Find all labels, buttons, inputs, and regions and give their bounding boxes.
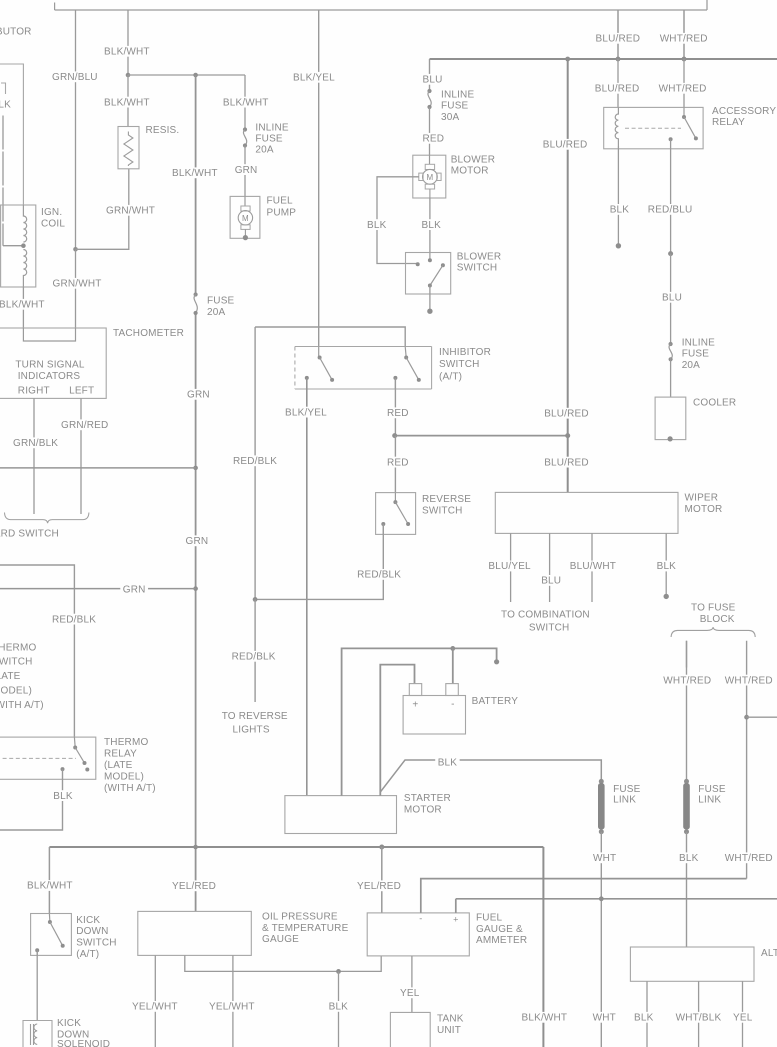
svg-text:FUSE: FUSE xyxy=(698,784,726,795)
label GRN/BLU xyxy=(50,71,101,83)
svg-text:WHT/BLK: WHT/BLK xyxy=(676,1013,722,1024)
node junction WHT bus xyxy=(599,896,604,901)
wire kick down outlet xyxy=(36,950,38,955)
label GRN/BLK xyxy=(11,437,61,449)
svg-text:BLK: BLK xyxy=(634,1013,654,1024)
svg-text:FUEL: FUEL xyxy=(476,913,503,924)
label BLK thermo xyxy=(51,790,75,802)
wire blower switch inlet xyxy=(429,253,431,261)
svg-text:WHT/RED: WHT/RED xyxy=(660,34,708,45)
inhibitor switch box xyxy=(295,347,432,390)
node RED/BLU junction dot xyxy=(668,251,673,256)
svg-text:YEL: YEL xyxy=(733,1013,753,1024)
svg-text:COIL: COIL xyxy=(41,219,65,230)
label BLK bottom xyxy=(326,1001,350,1013)
label WHT fuse xyxy=(591,852,619,864)
svg-text:WHT: WHT xyxy=(593,853,616,864)
fuse FUSE 20A symbol xyxy=(194,292,198,315)
svg-text:+: + xyxy=(412,700,418,711)
wire BLK wiper xyxy=(665,533,667,596)
label THERMO RELAY block xyxy=(104,737,156,794)
node junction bottom bus xyxy=(193,845,198,850)
blower motor symbol xyxy=(419,164,441,198)
label YEL alt xyxy=(731,1012,755,1024)
node BLK relay end dot xyxy=(616,243,621,248)
label RED lower xyxy=(385,457,412,469)
svg-text:GRN/WHT: GRN/WHT xyxy=(106,206,155,217)
svg-text:(LATE: (LATE xyxy=(104,760,133,771)
svg-text:FUEL: FUEL xyxy=(267,196,294,207)
node junction GRN/WHT xyxy=(73,247,78,252)
svg-text:WHT: WHT xyxy=(593,1013,616,1024)
inhibitor left contact xyxy=(318,356,322,360)
wire blower switch out xyxy=(429,286,431,312)
svg-text:RESIS.: RESIS. xyxy=(146,125,180,136)
label KICK DOWN SOLENOID xyxy=(57,1018,110,1047)
svg-text:BLU/RED: BLU/RED xyxy=(596,34,641,45)
wire BLK/WHT right feeder xyxy=(542,847,544,1047)
svg-text:KICK: KICK xyxy=(57,1018,81,1029)
label BLU/RED feeder upper xyxy=(540,139,590,151)
label INLINE FUSE 20A xyxy=(255,123,288,156)
svg-text:GRN: GRN xyxy=(123,584,146,595)
wire YEL/WHT oil 2 xyxy=(232,955,234,1047)
wire GRN/WHT to resistor xyxy=(76,169,129,250)
svg-text:DOWN: DOWN xyxy=(76,926,108,937)
label BLU/RED wiper 1 xyxy=(542,408,592,420)
wire WHT/BLK alt out xyxy=(698,981,700,1047)
svg-text:INLINE: INLINE xyxy=(441,90,474,101)
wire bus y59 xyxy=(430,58,777,60)
svg-text:BLU/WHT: BLU/WHT xyxy=(570,561,616,572)
fuse link 2 top dot xyxy=(684,779,689,784)
label YEL/WHT 2 xyxy=(207,1001,258,1013)
blower motor BLOWER MOTOR box xyxy=(413,155,446,198)
svg-text:SWITCH: SWITCH xyxy=(529,623,570,634)
label BLK/YEL inhibitor xyxy=(283,407,330,419)
wire GRN bus lower xyxy=(0,588,196,590)
wire GRN bus upper xyxy=(0,467,196,469)
svg-text:BLK/WHT: BLK/WHT xyxy=(27,881,73,892)
wire BLK/WHT kick down xyxy=(48,847,50,914)
wire junction bus y75 xyxy=(128,74,245,76)
wire BLK/WHT drop A xyxy=(127,10,129,75)
svg-text:SWITCH: SWITCH xyxy=(439,359,480,370)
wire bottom bus y847 xyxy=(49,846,543,848)
label YEL/WHT 1 xyxy=(130,1001,181,1013)
node junction BLK bottom xyxy=(336,969,341,974)
svg-text:SWITCH: SWITCH xyxy=(457,263,498,274)
fuel gauge FUEL GAUGE box xyxy=(367,913,469,956)
svg-text:RED: RED xyxy=(387,408,409,419)
label BLK/WHT C xyxy=(220,97,271,109)
battery minus tab xyxy=(446,684,459,696)
wire thermo feed xyxy=(0,565,74,737)
thermo relay contact in xyxy=(73,746,77,750)
svg-text:BLK: BLK xyxy=(679,853,699,864)
wire BLU to cooler fuse xyxy=(670,254,672,345)
svg-text:BLK: BLK xyxy=(422,220,442,231)
label BLU/WHT xyxy=(567,561,618,573)
fuse link 2 wire top xyxy=(686,641,688,782)
svg-text:(WITH A/T): (WITH A/T) xyxy=(104,783,156,794)
label FUEL PUMP xyxy=(267,196,297,219)
node junction WHT/RED off page xyxy=(744,715,749,720)
wire WHT/RED off page xyxy=(747,716,777,718)
node junction B xyxy=(193,73,198,78)
node junction WHT/RED relay xyxy=(682,57,687,62)
svg-text:TO REVERSE: TO REVERSE xyxy=(222,711,288,722)
label TO COMBINATION SWITCH xyxy=(501,609,590,633)
wire BLU/RED feeder xyxy=(567,59,569,492)
svg-text:BLK: BLK xyxy=(367,220,387,231)
svg-text:INHIBITOR: INHIBITOR xyxy=(439,347,491,358)
svg-text:RED/BLU: RED/BLU xyxy=(648,205,693,216)
svg-text:TO FUSE: TO FUSE xyxy=(691,602,736,613)
svg-text:WHT/RED: WHT/RED xyxy=(725,853,773,864)
svg-text:YEL/RED: YEL/RED xyxy=(357,881,401,892)
fuse link 2 body xyxy=(683,783,690,830)
fuse link 1 bottom dot xyxy=(599,829,604,834)
thermo relay dashed link xyxy=(0,757,76,759)
wire RED/BLK to reverse lights xyxy=(254,599,256,702)
svg-text:YEL/WHT: YEL/WHT xyxy=(209,1002,255,1013)
svg-text:BLU/RED: BLU/RED xyxy=(543,140,588,151)
relay switch arm xyxy=(684,117,696,138)
label TO REVERSE LIGHTS xyxy=(222,711,288,736)
wire oil-fuel link xyxy=(185,955,381,971)
wire battery minus link xyxy=(342,648,497,795)
svg-text:BLU: BLU xyxy=(662,293,682,304)
svg-text:SOLENOID: SOLENOID xyxy=(57,1039,110,1047)
label BLK/WHT feeder xyxy=(170,167,221,179)
wire YEL/WHT oil 1 xyxy=(154,955,156,1047)
brace hazard switch xyxy=(5,513,89,524)
label YEL tank xyxy=(398,987,422,999)
inhibitor right arm xyxy=(406,358,419,380)
oil gauge OIL PRESSURE box xyxy=(138,911,252,955)
label INLINE FUSE 20A cooler xyxy=(682,338,715,372)
label BLK starter xyxy=(435,757,459,769)
alternator ALTERNATOR box xyxy=(630,947,754,981)
svg-text:(WITH A/T): (WITH A/T) xyxy=(0,700,44,711)
svg-text:TO COMBINATION: TO COMBINATION xyxy=(501,609,590,620)
label BLU/RED relay xyxy=(592,83,642,95)
svg-text:BLK/WHT: BLK/WHT xyxy=(104,47,150,58)
label WHT/RED fuse block 2 xyxy=(722,675,775,687)
label BLU/YEL xyxy=(486,561,533,573)
svg-text:THERMO: THERMO xyxy=(104,737,148,748)
wire BLK alt out xyxy=(646,981,648,1047)
label RED/BLK riser xyxy=(231,455,280,467)
thermo relay contact out xyxy=(85,768,89,772)
svg-text:DISTRIBUTOR: DISTRIBUTOR xyxy=(0,27,32,38)
wire BLK relay xyxy=(617,146,619,246)
svg-text:BLOCK: BLOCK xyxy=(700,614,735,625)
svg-text:MODEL): MODEL) xyxy=(104,771,144,782)
svg-text:AMMETER: AMMETER xyxy=(476,935,527,946)
svg-text:(A/T): (A/T) xyxy=(439,372,462,383)
wire WHT/RED fuse block drop xyxy=(686,641,688,668)
svg-text:INLINE: INLINE xyxy=(682,338,715,349)
svg-text:LIGHTS: LIGHTS xyxy=(233,725,270,736)
kick down switch contacts xyxy=(35,920,64,952)
wire GRN/BLK right indicator xyxy=(33,398,35,514)
wire inhibitor right inlet xyxy=(405,347,406,358)
fuse link 1 top dot xyxy=(599,779,604,784)
wire RED/BLK reverse out xyxy=(255,524,383,599)
svg-text:-: - xyxy=(419,914,422,924)
svg-text:+: + xyxy=(453,915,458,925)
label BLK wiper xyxy=(654,561,678,573)
kick down solenoid coil xyxy=(31,1024,38,1045)
svg-text:BATTERY: BATTERY xyxy=(472,696,519,707)
relay switch arm tip xyxy=(694,136,698,140)
svg-text:GRN/BLK: GRN/BLK xyxy=(13,438,58,449)
label RED/BLK thermo xyxy=(50,614,99,626)
label RED/BLU xyxy=(645,204,695,216)
wire inhibitor left outlet xyxy=(306,378,308,389)
wire BLK/WHT coil out xyxy=(22,287,24,328)
wire GRN to fuel pump xyxy=(244,146,246,197)
svg-text:BLOWER: BLOWER xyxy=(457,252,501,263)
label RED/BLK reverse xyxy=(355,569,404,581)
wire reverse switch inlet xyxy=(394,493,396,503)
svg-text:RED: RED xyxy=(387,457,409,468)
node ign coil junction xyxy=(21,243,26,248)
label GRN fuel pump xyxy=(232,164,260,176)
label BLU/RED wiper 2 xyxy=(542,457,592,469)
ign coil IGN. COIL box xyxy=(1,205,36,287)
battery BATTERY box xyxy=(403,696,465,735)
wire inhibitor top link xyxy=(255,327,405,347)
svg-text:GRN: GRN xyxy=(186,536,209,547)
label WHT bottom xyxy=(590,1012,618,1024)
svg-text:HAZARD SWITCH: HAZARD SWITCH xyxy=(0,529,59,540)
label FUSE 20A xyxy=(207,296,235,319)
label WHT/RED lower xyxy=(722,852,775,864)
wire inhibitor left inlet xyxy=(318,347,320,358)
wire WHT/RED right drop xyxy=(746,641,748,879)
wire bus y898 fuel plus xyxy=(456,899,777,913)
svg-text:SWITCH: SWITCH xyxy=(76,937,117,948)
node fuel pump ground dot xyxy=(243,235,248,240)
wire BLU fuse to cooler xyxy=(670,358,672,397)
wire BLK thermo out xyxy=(0,769,63,830)
inhibitor right contact xyxy=(404,356,408,360)
relay coil xyxy=(615,107,618,146)
wire BLK motor to switch xyxy=(429,198,431,253)
svg-text:M: M xyxy=(426,173,433,182)
svg-text:BLK: BLK xyxy=(610,205,630,216)
wire BLK/YEL to starter xyxy=(306,378,308,796)
svg-text:LEFT: LEFT xyxy=(69,386,94,397)
svg-text:ALTERNATOR: ALTERNATOR xyxy=(761,948,777,959)
svg-text:RELAY: RELAY xyxy=(104,748,137,759)
label GRN feeder upper xyxy=(185,389,213,401)
wire YEL tank xyxy=(411,956,413,1013)
label BLK alternator feed xyxy=(677,852,701,864)
node junction RED/BLK xyxy=(253,597,258,602)
cooler COOLER box xyxy=(655,397,686,440)
label RED blower xyxy=(420,133,447,145)
label STARTER MOTOR xyxy=(404,793,451,815)
label FUSE LINK 2 xyxy=(698,784,726,806)
node junction BLU/RED feeder xyxy=(565,57,570,62)
svg-text:BLU/RED: BLU/RED xyxy=(544,457,589,468)
svg-text:LINK: LINK xyxy=(698,795,721,806)
svg-text:(A/T): (A/T) xyxy=(76,949,99,960)
battery plus tab xyxy=(409,684,421,696)
wire RED/BLK riser xyxy=(254,327,256,599)
wire GRN/WHT tacho xyxy=(75,249,77,328)
wire inhibitor right outlet xyxy=(394,378,396,389)
svg-text:BLK/WHT: BLK/WHT xyxy=(223,97,269,108)
svg-text:SWITCH: SWITCH xyxy=(422,506,463,517)
label GRN feeder lower xyxy=(183,535,211,547)
svg-text:WIPER: WIPER xyxy=(685,493,719,504)
svg-text:OIL PRESSURE: OIL PRESSURE xyxy=(262,912,338,923)
label GRN/WHT lower xyxy=(50,278,104,290)
label TO FUSE BLOCK xyxy=(691,602,736,625)
wire WHT below fuse link xyxy=(600,832,602,1047)
svg-text:BLK/YEL: BLK/YEL xyxy=(293,73,335,84)
wire relay switch inlet xyxy=(683,107,685,117)
relay switch contact in xyxy=(682,115,686,119)
svg-text:BLK: BLK xyxy=(329,1002,349,1013)
node end dot right of battery xyxy=(494,659,499,664)
wire top bus right riser xyxy=(706,0,708,10)
svg-text:YEL/RED: YEL/RED xyxy=(172,881,216,892)
wire WHT/RED drop xyxy=(683,10,685,59)
node junction bottom bus fuel xyxy=(379,845,384,850)
label GRN/RED xyxy=(59,419,111,431)
blower switch contacts xyxy=(416,258,445,287)
node battery minus junction xyxy=(450,646,455,651)
svg-text:GAUGE: GAUGE xyxy=(262,934,299,945)
label BLK/WHT coil xyxy=(0,299,47,311)
svg-text:20A: 20A xyxy=(207,307,225,318)
svg-text:GRN/BLU: GRN/BLU xyxy=(52,72,98,83)
label BLOWER SWITCH xyxy=(457,252,501,274)
wire blower motor inlet xyxy=(429,155,431,164)
wire RED to BLU/RED link xyxy=(395,435,568,437)
node junction RED xyxy=(392,433,397,438)
svg-text:MOTOR: MOTOR xyxy=(451,166,489,177)
svg-text:TURN SIGNAL: TURN SIGNAL xyxy=(15,360,84,371)
wire thermo relay inlet xyxy=(73,737,76,747)
wire top bus xyxy=(55,9,707,11)
label FUSE LINK 1 xyxy=(613,784,641,806)
svg-text:STARTER: STARTER xyxy=(404,793,451,804)
reverse switch contacts xyxy=(381,500,410,526)
thermo relay arm tip xyxy=(83,761,87,765)
node cooler ground dot xyxy=(668,436,673,441)
svg-text:FUSE: FUSE xyxy=(255,134,283,145)
thermo relay out contact 2 xyxy=(61,767,65,771)
svg-text:BLU/RED: BLU/RED xyxy=(544,408,589,419)
label KICK DOWN SWITCH (A/T) xyxy=(76,915,117,960)
ign coil primary winding xyxy=(23,205,26,242)
label BLU wiper xyxy=(539,575,564,587)
fuse INLINE FUSE 20A fuel pump xyxy=(243,127,247,147)
svg-text:BLOWER: BLOWER xyxy=(451,155,495,166)
svg-text:BLU: BLU xyxy=(541,576,561,587)
svg-text:UNIT: UNIT xyxy=(437,1025,461,1036)
svg-text:KICK: KICK xyxy=(76,915,100,926)
inhibitor left arm tip xyxy=(330,378,334,382)
wire battery plus link xyxy=(380,665,414,796)
label WHT/BLK xyxy=(673,1012,724,1024)
label WHT/RED relay xyxy=(656,83,709,95)
label GRN/WHT upper xyxy=(104,205,158,217)
label REVERSE SWITCH xyxy=(422,494,471,517)
svg-text:IGN.: IGN. xyxy=(41,207,62,218)
svg-text:GRN/WHT: GRN/WHT xyxy=(53,279,102,290)
relay dashed link xyxy=(625,127,681,129)
svg-text:BLK/WHT: BLK/WHT xyxy=(522,1013,568,1024)
wire distributor left lead xyxy=(2,116,4,246)
svg-text:BLU: BLU xyxy=(423,75,443,86)
distributor internal mark xyxy=(1,83,6,95)
label BLK blower mid xyxy=(419,219,443,231)
wire BLU inline fuse drop xyxy=(429,59,431,91)
inhibitor right arm tip xyxy=(417,378,421,382)
wiper motor WIPER MOTOR box xyxy=(495,492,678,533)
svg-text:INLINE: INLINE xyxy=(255,123,288,134)
svg-text:GRN/RED: GRN/RED xyxy=(61,420,108,431)
wire BLK/WHT fuel pump branch xyxy=(244,75,246,129)
thermo relay box xyxy=(0,737,96,779)
wire RED inhibitor out xyxy=(394,378,396,436)
wire GRN/RED left indicator xyxy=(80,398,82,514)
inhibitor left out contact xyxy=(305,376,309,380)
svg-text:BLU/YEL: BLU/YEL xyxy=(488,561,531,572)
svg-text:20A: 20A xyxy=(255,145,273,156)
label TANK UNIT xyxy=(437,1014,464,1037)
inhibitor left arm xyxy=(320,358,333,380)
label BLU cooler xyxy=(660,292,685,304)
wire kick switch to solenoid xyxy=(36,950,38,1020)
label WIPER MOTOR xyxy=(685,493,723,515)
inhibitor right out contact xyxy=(393,376,397,380)
ign coil secondary winding xyxy=(23,250,26,288)
svg-text:TACHOMETER: TACHOMETER xyxy=(113,328,184,339)
wire battery minus drop xyxy=(452,648,454,683)
wire reverse switch outlet xyxy=(382,524,384,534)
svg-text:MODEL): MODEL) xyxy=(0,686,32,697)
label INHIBITOR SWITCH (A/T) xyxy=(439,347,491,383)
label BLOWER MOTOR xyxy=(451,155,495,177)
wire YEL/RED fuel xyxy=(381,847,383,913)
thermo relay arm xyxy=(75,748,84,764)
node junction GRN left bus xyxy=(193,466,198,471)
label RED upper xyxy=(385,407,412,419)
fuel pump FUEL PUMP box xyxy=(230,196,260,238)
wire RED to blower motor xyxy=(429,107,431,155)
svg-text:BLK/WHT: BLK/WHT xyxy=(172,168,218,179)
label THERMO SWITCH block xyxy=(0,643,44,712)
svg-text:FUSE: FUSE xyxy=(682,349,710,360)
wire RED/BLU relay xyxy=(670,139,672,253)
node BLK wiper end dot xyxy=(664,594,669,599)
svg-text:LINK: LINK xyxy=(613,795,636,806)
blower switch BLOWER SWITCH box xyxy=(406,253,451,295)
label BLK/WHT bottom right xyxy=(519,1012,570,1024)
svg-text:WHT/RED: WHT/RED xyxy=(725,675,773,686)
label BLK/YEL top xyxy=(291,72,338,84)
svg-text:FUSE: FUSE xyxy=(207,296,235,307)
